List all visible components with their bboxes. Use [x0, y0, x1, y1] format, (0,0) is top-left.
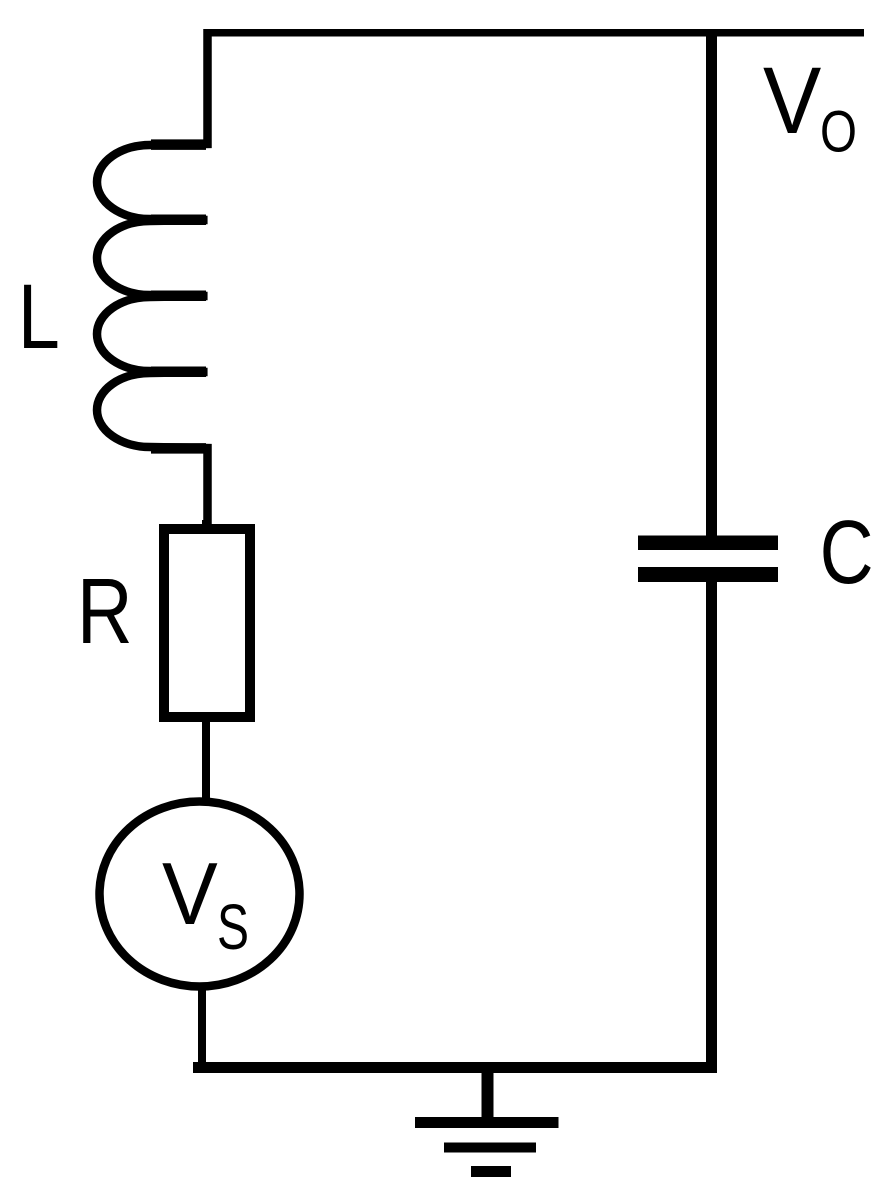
svg-text:O: O: [820, 100, 857, 165]
svg-text:V: V: [162, 845, 218, 943]
svg-text:L: L: [18, 265, 60, 368]
svg-text:S: S: [217, 891, 249, 962]
svg-text:C: C: [820, 501, 874, 602]
svg-text:V: V: [763, 48, 821, 154]
svg-text:R: R: [77, 560, 133, 663]
